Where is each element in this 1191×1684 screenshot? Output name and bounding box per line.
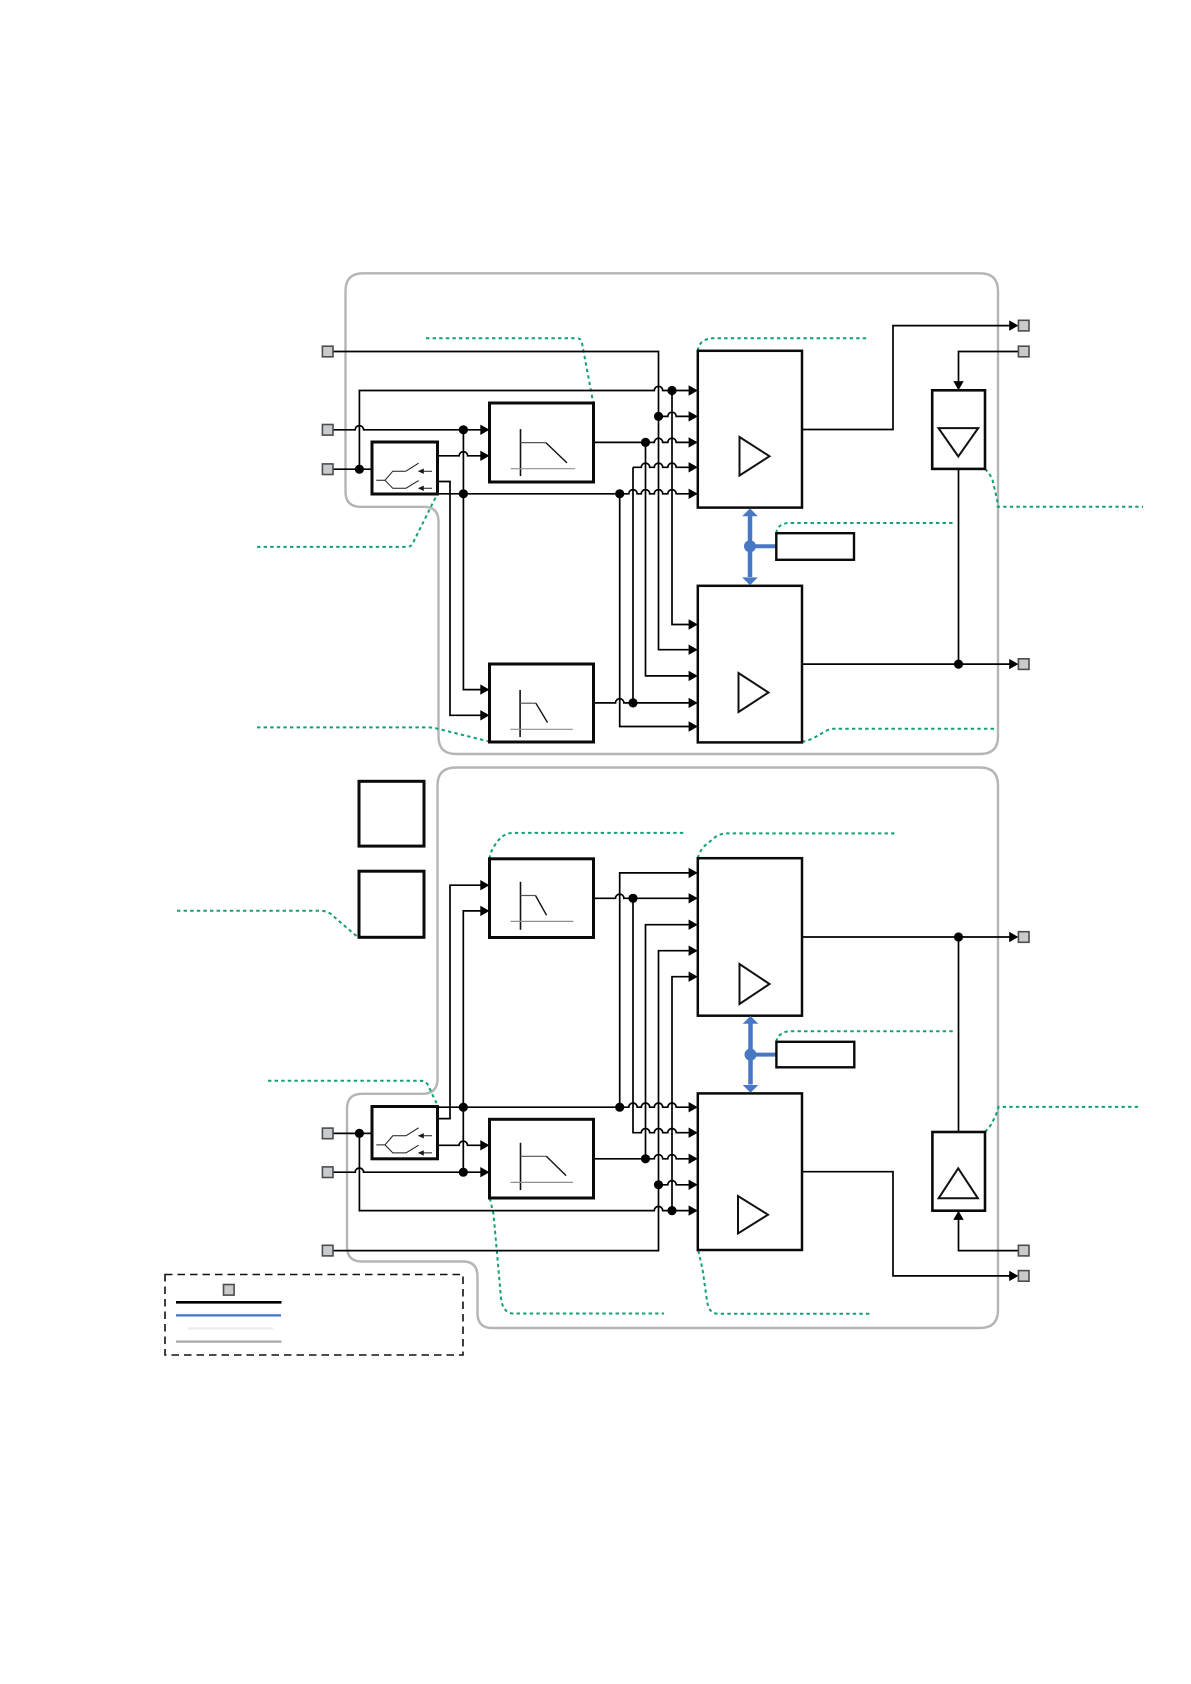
SEC2 bbox=[177, 768, 1141, 1329]
filter F2 response icon bbox=[519, 690, 521, 737]
wire: driver U1 output down to output net bbox=[958, 469, 960, 664]
input port P2 bbox=[322, 425, 333, 436]
filter F4 response icon bbox=[520, 1143, 522, 1190]
arrowhead: port T1 bbox=[1009, 320, 1018, 330]
output port B1 bbox=[1018, 932, 1029, 943]
callout leader: control R1 bbox=[776, 523, 954, 533]
wire: filter F3 output to mixer M3 input 2 bbox=[594, 894, 689, 898]
arrowhead: mixer M3 input 3 bbox=[689, 920, 698, 930]
switch S2 contact arrows bbox=[418, 1133, 424, 1156]
container: output signal path (top block boundary) bbox=[346, 273, 999, 754]
wire: bus V3 down to mixer M2 input 3 bbox=[646, 442, 689, 676]
legend: control line bbox=[176, 1314, 281, 1316]
arrowhead: mixer M2 input 1 bbox=[689, 619, 698, 629]
legend: faint line bbox=[188, 1327, 273, 1329]
filter F3 response icon bbox=[520, 882, 522, 930]
arrowhead: mixer M2 input 5 bbox=[689, 721, 698, 731]
wire: P3 branch up to mixer M1 input 1 bbox=[359, 386, 688, 469]
filter F4 bbox=[490, 1119, 594, 1198]
callout leader: mixer M4 bbox=[698, 1251, 870, 1314]
control link arrow: M3/M4 volume bbox=[743, 1016, 777, 1093]
input port P6 bbox=[322, 1245, 333, 1256]
callout leader: driver U2 bbox=[985, 1107, 1141, 1132]
junction: P4 branch bbox=[355, 1129, 364, 1138]
wire: port P2 to filter F1 input 1 bbox=[333, 426, 481, 430]
wire: bus V3 feed to mixer M3 input 3 bbox=[646, 925, 689, 1159]
arrowhead: port T3 bbox=[1009, 659, 1018, 669]
arrowhead: filter F4 input 2 bbox=[480, 1167, 489, 1177]
wire: bus V4 tap to mixer M1 input 2 bbox=[659, 412, 689, 416]
output port B3 bbox=[1018, 1271, 1029, 1282]
callout leader: mixer M3 bbox=[698, 833, 896, 858]
wire: filter F2 output to mixer M2 input 4 bbox=[594, 699, 689, 703]
output port T1 bbox=[1018, 320, 1029, 331]
arrowhead: mixer M2 input 2 bbox=[689, 645, 698, 655]
arrowhead: filter F2 input 2 bbox=[480, 710, 489, 720]
junction: F4 output meets V3 bbox=[641, 1154, 650, 1163]
wire: port B2 into driver U2 bottom bbox=[959, 1220, 1019, 1251]
junction: V5 top bbox=[667, 386, 676, 395]
mixer M4 gain triangle bbox=[738, 1196, 768, 1234]
container: speaker signal path (bottom block boundary) bbox=[347, 768, 998, 1329]
arrowhead: mixer M3 input 5 bbox=[689, 972, 698, 982]
junction: F2 output meets V2 bbox=[628, 698, 637, 707]
callout leader: mixer M2 bbox=[802, 729, 996, 742]
junction: V4 at y1184 bbox=[654, 1180, 663, 1189]
callout leader: control R2 bbox=[776, 1031, 954, 1042]
switch S2 bbox=[372, 1107, 438, 1159]
switch S1 bbox=[372, 442, 438, 494]
box B1: reference block bbox=[359, 781, 424, 846]
callout leader: mixer M1 bbox=[698, 338, 868, 351]
input port P4 bbox=[322, 1128, 333, 1139]
arrowhead: mixer M3 input 2 bbox=[689, 893, 698, 903]
wire: port T2 down into driver U1 bbox=[959, 352, 1019, 383]
filter F2 bbox=[490, 664, 594, 742]
driver U1 bbox=[932, 390, 985, 469]
junction: corner feed at x619 bbox=[615, 1103, 624, 1112]
callout leader: switch S2 bbox=[268, 1081, 437, 1106]
arrowhead: filter F3 input 1 bbox=[480, 880, 489, 890]
arrowhead: mixer M1 input 5 bbox=[689, 489, 698, 499]
callout leader: mic bias box B2 bbox=[177, 911, 359, 938]
arrowhead: mixer M3 input 1 bbox=[689, 868, 698, 878]
mixer M1 bbox=[698, 351, 802, 508]
arrowhead: port B3 bbox=[1009, 1271, 1018, 1281]
control register R1 bbox=[776, 533, 854, 560]
junction: V4 at y416 bbox=[654, 412, 663, 421]
arrowhead: mixer M4 input 2 bbox=[689, 1128, 698, 1138]
arrowhead: mixer M1 input 4 bbox=[689, 462, 698, 472]
mixer M2 gain triangle bbox=[739, 673, 769, 712]
input port T2 bbox=[1018, 346, 1029, 357]
wire: port P6 up bus V4 to mixer M3 input 4 bbox=[333, 951, 689, 1251]
wire: mixer M2 output to port T3 bbox=[802, 663, 1010, 665]
arrowhead: filter F4 input 1 bbox=[480, 1140, 489, 1150]
junction: P3 branch bbox=[355, 465, 364, 474]
filter F3 bbox=[490, 859, 594, 938]
arrowhead: mixer M4 input 5 bbox=[689, 1205, 698, 1215]
arrowhead: driver U2 bottom input bbox=[953, 1211, 963, 1220]
control link arrow: M1/M2 volume bbox=[742, 508, 776, 585]
wire: switch S2 corner feed to mixer M4 input 1 bbox=[438, 1103, 689, 1107]
arrowhead: filter F3 input 2 bbox=[480, 906, 489, 916]
arrowhead: mixer M1 input 3 bbox=[689, 437, 698, 447]
input port B2 bbox=[1018, 1245, 1029, 1256]
wire: port P1 to vertical bus V4 and mixer M2 input 2 bbox=[333, 352, 689, 650]
wire: switch S1 output B to filter F2 input 2 bbox=[438, 482, 481, 716]
wire: port P5 to filter F4 input 2 bbox=[333, 1168, 481, 1172]
switch S2 symbol bbox=[376, 1128, 432, 1153]
arrowhead: mixer M4 input 3 bbox=[689, 1154, 698, 1164]
input port P5 bbox=[322, 1167, 333, 1178]
legend: boundary line bbox=[176, 1340, 282, 1342]
callout leader: filter F2 bbox=[257, 727, 490, 742]
junction: U1 output on M2 net bbox=[954, 660, 963, 669]
input port P1 bbox=[322, 346, 333, 357]
wire: switch S1 output A to filter F1 input 2 bbox=[438, 452, 481, 456]
arrowhead: mixer M3 input 4 bbox=[689, 946, 698, 956]
callout leader: filter F3 bbox=[490, 833, 686, 859]
arrowhead: filter F2 input 1 bbox=[480, 684, 489, 694]
arrowhead: mixer M2 input 4 bbox=[689, 698, 698, 708]
wire: mixer M1 output to port T1 bbox=[802, 326, 1010, 430]
junction: M4 input5 tap of bus V5 bbox=[667, 1206, 676, 1215]
wire: filter F1 output to mixer M1 input 3 bbox=[594, 438, 689, 442]
junction: P2 branch at y429 bbox=[459, 425, 468, 434]
driver U2 bbox=[932, 1132, 985, 1211]
callout leader: driver U1 bbox=[985, 469, 1143, 507]
mixer M1 gain triangle bbox=[740, 437, 770, 476]
input port P3 bbox=[322, 464, 333, 475]
arrowhead: mixer M2 input 3 bbox=[689, 671, 698, 681]
arrowhead: filter F1 input 2 bbox=[480, 451, 489, 461]
wire: port P3 into switch S1 bbox=[333, 468, 372, 470]
junction: U2 output on M3 net bbox=[954, 932, 963, 941]
callout leader: filter F4 bbox=[490, 1198, 664, 1313]
mixer M3 bbox=[698, 858, 802, 1016]
wire: P5 branch up to filter F3 input 2 bbox=[463, 911, 480, 1172]
wire: switch S2 output B up to filter F3 input 1 bbox=[438, 885, 481, 1118]
wire: bus V2 feed to mixer M1 input 4 bbox=[633, 463, 689, 467]
arrowhead: mixer M1 input 2 bbox=[689, 411, 698, 421]
arrowhead: mixer M4 input 1 bbox=[689, 1102, 698, 1112]
switch S1 contact arrows bbox=[418, 469, 424, 491]
SEC1 bbox=[257, 273, 1143, 754]
wire: mixer M4 output to port B3 bbox=[802, 1172, 1010, 1276]
junction: P5 branch bbox=[459, 1168, 468, 1177]
driver U1 inverting triangle bbox=[939, 428, 979, 456]
callout leader: filter F1 bbox=[426, 338, 593, 403]
wire: bus V5 from y390 to mixer M2 input 1 bbox=[672, 391, 689, 625]
arrowhead: mixer M1 input 1 bbox=[689, 385, 698, 395]
junction: V463 on S2 corner net bbox=[459, 1103, 468, 1112]
junction: corner feed at x619 bbox=[615, 489, 624, 498]
legend: analogue signal line bbox=[176, 1301, 282, 1304]
wire: bus V2 vertical bbox=[632, 467, 634, 703]
wire: bus V1 down to mixer M2 input 5 bbox=[620, 494, 689, 727]
box B2: reference block bbox=[359, 871, 424, 937]
filter F1 response icon bbox=[520, 429, 522, 476]
output port T3 bbox=[1018, 659, 1029, 670]
wire: mixer M3 output to port B1 bbox=[802, 936, 1010, 938]
arrowhead: driver U1 top input bbox=[953, 381, 963, 390]
wire: driver U2 output up to M3 net bbox=[958, 937, 960, 1132]
wire: bus V4 tap to mixer M4 input 4 bbox=[659, 1181, 689, 1185]
callout leader: switch S1 bbox=[257, 494, 437, 547]
filter F1 bbox=[490, 403, 594, 482]
junction: corner feed at x463 bbox=[459, 489, 468, 498]
junction: F3 output tap bbox=[628, 894, 637, 903]
legend box bbox=[165, 1275, 463, 1356]
control register R2 bbox=[776, 1042, 854, 1068]
LEGEND bbox=[165, 1275, 463, 1356]
wire: bus V1 up to mixer M3 input 1 bbox=[620, 873, 689, 1107]
legend: port symbol bbox=[224, 1285, 235, 1296]
driver U2 triangle bbox=[939, 1168, 978, 1198]
wire: switch S2 output A to filter F4 input 1 bbox=[438, 1141, 481, 1145]
switch S1 symbol bbox=[376, 463, 432, 488]
wire: P4 branch down to mixer M4 input 5 bbox=[359, 1133, 688, 1210]
wire: bus V2 down to mixer M4 input 2 bbox=[633, 898, 689, 1132]
wire: port P4 into switch S2 bbox=[333, 1132, 372, 1134]
arrowhead: mixer M4 input 4 bbox=[689, 1180, 698, 1190]
mixer M2 bbox=[698, 586, 802, 743]
wire: P2 branch down to filter F2 input 1 bbox=[463, 430, 480, 690]
wire: bus V5 up to mixer M3 input 5 bbox=[672, 977, 689, 1211]
arrowhead: port B1 bbox=[1009, 932, 1018, 942]
junction: F1 output tap bbox=[641, 438, 650, 447]
wire: filter F4 output to mixer M4 input 3 bbox=[594, 1155, 689, 1159]
arrowhead: filter F1 input 1 bbox=[480, 425, 489, 435]
mixer M3 gain triangle bbox=[740, 964, 770, 1004]
mixer M4 bbox=[698, 1093, 802, 1250]
wire: switch S1 corner feed to mixer M1 input 5 bbox=[438, 490, 689, 494]
